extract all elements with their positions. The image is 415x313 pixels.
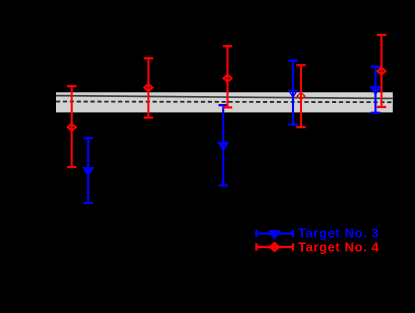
errorbar B1 Target No. 3	[84, 138, 93, 203]
errorbar B4 Target No. 3	[371, 67, 380, 113]
solid fit line	[56, 96, 393, 99]
legend sample Target No. 3	[256, 230, 293, 238]
errorbar R4 Target No. 4	[296, 65, 305, 127]
errorbar R2 Target No. 4	[144, 58, 153, 117]
errorbar B3 Target No. 3	[288, 61, 297, 125]
errorbar R3 Target No. 4	[223, 46, 232, 107]
legend sample Target No. 4	[256, 243, 293, 250]
errorbar R1 Target No. 4	[67, 86, 76, 167]
svg-text:Target No. 4: Target No. 4	[298, 239, 380, 254]
errorbar R5 Target No. 4	[377, 35, 386, 107]
errorbar B2 Target No. 3	[219, 105, 228, 185]
uncertainty band	[56, 92, 393, 112]
dashed reference line	[56, 101, 393, 104]
